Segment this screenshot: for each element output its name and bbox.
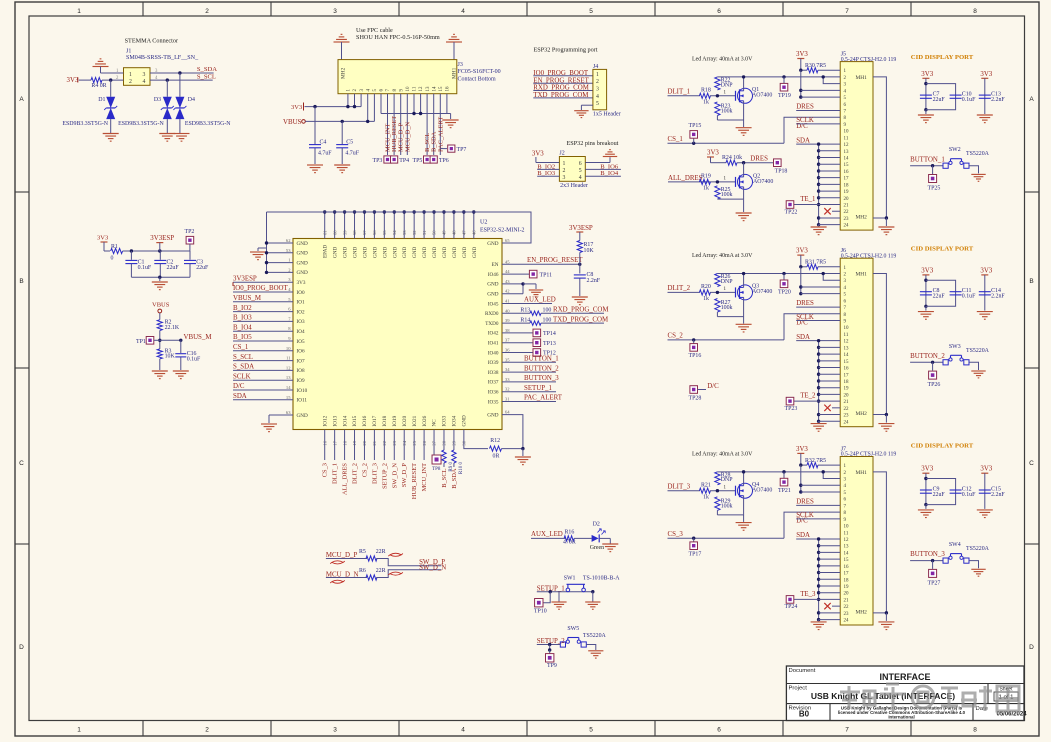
- svg-text:R10 0: R10 0: [459, 462, 464, 475]
- svg-text:22uF: 22uF: [933, 97, 946, 103]
- svg-text:IO8: IO8: [297, 368, 305, 374]
- svg-text:5: 5: [596, 101, 599, 107]
- svg-text:IO38: IO38: [488, 370, 499, 376]
- svg-text:DRES: DRES: [796, 499, 814, 506]
- svg-text:2.2nF: 2.2nF: [587, 278, 601, 284]
- svg-text:IO0_PROG_BOOT: IO0_PROG_BOOT: [233, 285, 289, 292]
- svg-text:1: 1: [563, 161, 566, 167]
- svg-text:R6: R6: [359, 568, 366, 574]
- svg-text:3V3ESP: 3V3ESP: [233, 275, 257, 282]
- svg-text:13: 13: [844, 346, 850, 351]
- svg-text:GND: GND: [362, 247, 368, 258]
- svg-text:3V3: 3V3: [980, 466, 992, 473]
- svg-text:GND: GND: [452, 247, 458, 258]
- svg-text:MH1: MH1: [856, 272, 868, 278]
- svg-text:AUX_LED: AUX_LED: [531, 531, 563, 538]
- svg-text:10: 10: [844, 130, 850, 135]
- svg-text:60: 60: [332, 230, 337, 235]
- svg-text:GND: GND: [297, 241, 308, 247]
- svg-text:Led Array: 40mA at 3.0V: Led Array: 40mA at 3.0V: [692, 451, 753, 457]
- svg-text:SETUP_1: SETUP_1: [524, 385, 553, 392]
- svg-text:TS5220A: TS5220A: [966, 151, 990, 157]
- svg-text:31: 31: [505, 397, 510, 402]
- svg-text:GND: GND: [297, 260, 308, 266]
- svg-text:Green: Green: [590, 545, 604, 551]
- svg-text:1k: 1k: [703, 99, 709, 105]
- svg-text:32: 32: [505, 387, 510, 392]
- svg-text:CS_1: CS_1: [668, 136, 684, 143]
- svg-text:7: 7: [845, 727, 849, 734]
- svg-text:3: 3: [143, 72, 146, 78]
- svg-text:A: A: [19, 96, 24, 103]
- svg-text:2: 2: [563, 168, 566, 174]
- svg-text:D: D: [19, 644, 24, 651]
- svg-text:14: 14: [432, 86, 437, 92]
- svg-text:42: 42: [505, 289, 510, 294]
- svg-text:Led Array: 40mA at 3.0V: Led Array: 40mA at 3.0V: [692, 57, 753, 63]
- svg-text:IO34: IO34: [452, 415, 458, 426]
- svg-text:MCU_D_N: MCU_D_N: [404, 121, 411, 152]
- svg-text:IO36: IO36: [488, 390, 499, 396]
- svg-text:IO0: IO0: [297, 290, 305, 296]
- svg-text:TP22: TP22: [785, 209, 798, 215]
- svg-text:CS_2: CS_2: [668, 333, 684, 340]
- svg-text:R21: R21: [701, 482, 711, 488]
- svg-text:57: 57: [362, 230, 367, 235]
- svg-text:37: 37: [505, 338, 510, 343]
- svg-text:3: 3: [563, 175, 566, 181]
- svg-text:TXD0: TXD0: [485, 321, 499, 327]
- svg-text:IO3: IO3: [297, 319, 305, 325]
- svg-text:ESD9B3.3ST5G-N: ESD9B3.3ST5G-N: [185, 121, 231, 127]
- svg-text:SW2: SW2: [949, 147, 961, 153]
- svg-text:GND: GND: [392, 247, 398, 258]
- svg-text:35: 35: [505, 357, 510, 362]
- svg-text:3V3: 3V3: [796, 248, 808, 255]
- svg-text:TP9: TP9: [547, 663, 557, 669]
- svg-text:DNP: DNP: [721, 477, 734, 483]
- svg-text:8: 8: [973, 8, 977, 15]
- svg-text:R16: R16: [565, 530, 575, 536]
- svg-text:Project: Project: [789, 686, 808, 692]
- svg-text:International: International: [888, 715, 914, 720]
- svg-text:19: 19: [844, 387, 850, 392]
- svg-text:17: 17: [844, 572, 850, 577]
- svg-text:50: 50: [432, 230, 437, 235]
- svg-text:CS_3: CS_3: [668, 531, 684, 538]
- svg-text:TP25: TP25: [928, 186, 941, 192]
- svg-text:15: 15: [844, 558, 850, 563]
- svg-text:GND: GND: [472, 247, 478, 258]
- svg-text:3V3: 3V3: [921, 71, 933, 78]
- svg-text:MH2: MH2: [856, 215, 868, 221]
- svg-text:18: 18: [844, 578, 850, 583]
- svg-text:SW4: SW4: [949, 542, 961, 548]
- svg-text:53: 53: [402, 230, 407, 235]
- svg-text:IO12: IO12: [322, 415, 328, 426]
- svg-text:TP18: TP18: [775, 168, 788, 174]
- svg-text:1: 1: [129, 72, 132, 78]
- svg-text:TS5220A: TS5220A: [583, 633, 607, 639]
- svg-text:DRES: DRES: [750, 155, 768, 162]
- svg-text:S_SCL: S_SCL: [197, 73, 216, 80]
- svg-text:AUX_LED: AUX_LED: [524, 297, 556, 304]
- svg-text:BUTTON_1: BUTTON_1: [524, 356, 559, 363]
- svg-text:22uF: 22uF: [196, 265, 209, 271]
- svg-text:63: 63: [286, 410, 291, 415]
- svg-text:VBUS_M: VBUS_M: [184, 334, 212, 341]
- svg-text:MCU_INT: MCU_INT: [421, 463, 428, 491]
- svg-text:STEMMA Connector: STEMMA Connector: [125, 38, 178, 45]
- svg-text:52: 52: [412, 230, 417, 235]
- svg-text:36: 36: [505, 348, 510, 353]
- svg-text:22: 22: [844, 407, 850, 412]
- svg-text:40: 40: [505, 308, 510, 313]
- svg-text:3V3: 3V3: [67, 77, 79, 84]
- svg-text:3: 3: [596, 87, 599, 93]
- svg-text:3V3: 3V3: [97, 235, 108, 242]
- svg-text:17: 17: [844, 373, 850, 378]
- svg-text:R18: R18: [701, 88, 711, 94]
- svg-text:22: 22: [844, 605, 850, 610]
- svg-text:B_SCL: B_SCL: [441, 468, 448, 487]
- svg-text:B_SDA: B_SDA: [451, 468, 458, 489]
- svg-text:0.1uF: 0.1uF: [962, 492, 976, 498]
- svg-text:3V3: 3V3: [291, 104, 302, 111]
- svg-text:IO4: IO4: [297, 329, 305, 335]
- svg-text:22uF: 22uF: [933, 294, 946, 300]
- svg-text:7: 7: [845, 8, 849, 15]
- svg-text:GND: GND: [487, 412, 498, 418]
- svg-text:MH1: MH1: [856, 75, 868, 81]
- svg-text:TE_1: TE_1: [800, 196, 816, 203]
- svg-text:IO14: IO14: [342, 415, 348, 426]
- svg-text:15: 15: [844, 360, 850, 365]
- svg-text:MH2: MH2: [856, 609, 868, 615]
- svg-text:SW5: SW5: [567, 626, 579, 632]
- svg-text:4: 4: [461, 727, 465, 734]
- svg-text:PAC_ALERT: PAC_ALERT: [437, 117, 444, 152]
- svg-text:IO7: IO7: [297, 358, 305, 364]
- svg-text:14: 14: [286, 385, 291, 390]
- svg-text:TP20: TP20: [778, 290, 791, 296]
- svg-text:24: 24: [844, 224, 850, 229]
- svg-text:GND: GND: [487, 282, 498, 288]
- svg-text:BUTTON_3: BUTTON_3: [910, 551, 945, 558]
- svg-text:DNP: DNP: [721, 279, 734, 285]
- svg-text:TS5220A: TS5220A: [966, 348, 990, 354]
- svg-text:3V3: 3V3: [980, 267, 992, 274]
- svg-text:AO7400: AO7400: [752, 93, 772, 99]
- svg-text:3V3: 3V3: [796, 446, 808, 453]
- svg-text:R12: R12: [490, 438, 500, 444]
- svg-text:12: 12: [844, 538, 850, 543]
- svg-text:TP2: TP2: [185, 229, 195, 235]
- svg-text:2.2nF: 2.2nF: [991, 294, 1005, 300]
- svg-text:CID DISPLAY PORT: CID DISPLAY PORT: [911, 443, 974, 450]
- svg-text:64: 64: [505, 410, 510, 415]
- svg-text:SW_D_N: SW_D_N: [391, 463, 398, 489]
- svg-text:14: 14: [844, 157, 850, 162]
- svg-text:100k: 100k: [721, 108, 733, 114]
- svg-text:DLIT_1: DLIT_1: [668, 88, 691, 95]
- svg-text:GND: GND: [487, 241, 498, 247]
- svg-text:2: 2: [129, 79, 132, 85]
- svg-text:13: 13: [844, 150, 850, 155]
- svg-text:R5: R5: [359, 549, 366, 555]
- svg-text:TP7: TP7: [457, 147, 467, 153]
- svg-text:AO7400: AO7400: [752, 487, 772, 493]
- svg-text:MH2: MH2: [856, 411, 868, 417]
- svg-text:2: 2: [596, 79, 599, 85]
- svg-text:17: 17: [844, 177, 850, 182]
- svg-text:SDA: SDA: [233, 393, 247, 400]
- svg-text:U2: U2: [480, 220, 487, 226]
- svg-text:D1: D1: [98, 97, 105, 103]
- svg-text:13: 13: [286, 375, 291, 380]
- svg-text:13: 13: [844, 545, 850, 550]
- svg-text:5: 5: [589, 8, 593, 15]
- svg-text:IO37: IO37: [488, 380, 499, 386]
- svg-text:0.1uF: 0.1uF: [138, 265, 152, 271]
- svg-text:1: 1: [723, 286, 726, 292]
- svg-text:GND: GND: [412, 247, 418, 258]
- svg-text:3: 3: [333, 727, 337, 734]
- svg-text:5: 5: [579, 168, 582, 174]
- svg-text:PAC_ALERT: PAC_ALERT: [524, 395, 563, 402]
- svg-text:AO7400: AO7400: [753, 179, 773, 185]
- svg-text:2: 2: [205, 8, 209, 15]
- svg-text:21: 21: [844, 598, 850, 603]
- svg-text:HUB_RESET: HUB_RESET: [411, 463, 418, 499]
- svg-text:10K: 10K: [584, 248, 595, 254]
- svg-text:23: 23: [844, 414, 850, 419]
- svg-text:CS_2: CS_2: [361, 463, 368, 477]
- svg-text:1: 1: [723, 90, 726, 96]
- svg-text:43: 43: [505, 279, 510, 284]
- svg-text:GND: GND: [432, 247, 438, 258]
- svg-text:3V3: 3V3: [532, 150, 544, 157]
- svg-text:DNP: DNP: [721, 82, 734, 88]
- svg-text:TS5220A: TS5220A: [966, 546, 990, 552]
- svg-text:13: 13: [426, 86, 431, 92]
- svg-text:2x3 Header: 2x3 Header: [560, 183, 588, 189]
- svg-text:J1: J1: [126, 49, 131, 55]
- svg-text:GND: GND: [343, 247, 349, 258]
- svg-text:3V3: 3V3: [980, 71, 992, 78]
- svg-text:12: 12: [844, 143, 850, 148]
- svg-text:TP28: TP28: [689, 396, 702, 402]
- svg-text:C: C: [1029, 460, 1034, 467]
- svg-text:TP16: TP16: [689, 353, 702, 359]
- svg-text:J3: J3: [458, 62, 463, 68]
- svg-text:ESP32-S2-MINI-2: ESP32-S2-MINI-2: [480, 228, 525, 234]
- svg-text:R24 10k: R24 10k: [722, 155, 742, 161]
- svg-text:100: 100: [543, 317, 552, 323]
- svg-text:47: 47: [462, 230, 467, 235]
- svg-text:D3: D3: [154, 97, 161, 103]
- svg-text:TP4: TP4: [399, 158, 409, 164]
- svg-text:3V3: 3V3: [707, 150, 719, 157]
- svg-text:IO9: IO9: [297, 378, 305, 384]
- svg-text:TP8: TP8: [432, 467, 441, 472]
- svg-text:TP27: TP27: [928, 580, 941, 586]
- svg-text:IO45: IO45: [488, 301, 499, 307]
- svg-text:R14: R14: [520, 317, 530, 323]
- svg-text:SETUP_2: SETUP_2: [381, 463, 388, 489]
- svg-text:100k: 100k: [721, 305, 733, 311]
- svg-text:12: 12: [419, 86, 424, 92]
- svg-text:61: 61: [322, 230, 327, 235]
- svg-text:GND: GND: [487, 292, 498, 298]
- svg-text:GND: GND: [297, 413, 308, 419]
- svg-text:IO39: IO39: [488, 360, 499, 366]
- svg-text:10: 10: [406, 86, 411, 92]
- svg-text:SDA: SDA: [796, 532, 810, 539]
- svg-text:100: 100: [543, 308, 552, 314]
- svg-text:TP3: TP3: [373, 158, 383, 164]
- svg-text:D/C: D/C: [233, 383, 245, 390]
- svg-text:4: 4: [461, 8, 465, 15]
- svg-text:INTERFACE: INTERFACE: [879, 672, 930, 682]
- svg-text:16: 16: [446, 86, 451, 92]
- svg-text:Led Array: 40mA at 3.0V: Led Array: 40mA at 3.0V: [692, 253, 753, 259]
- svg-text:TP14: TP14: [543, 331, 556, 337]
- svg-text:Document: Document: [789, 668, 816, 674]
- svg-text:39: 39: [505, 318, 510, 323]
- svg-text:B: B: [19, 278, 23, 285]
- svg-text:22: 22: [844, 210, 850, 215]
- svg-text:Date: Date: [976, 706, 989, 712]
- svg-text:TP23: TP23: [785, 406, 798, 412]
- svg-text:10: 10: [286, 346, 291, 351]
- svg-text:ESD9B3.3ST5G-N: ESD9B3.3ST5G-N: [118, 121, 164, 127]
- svg-text:TP15: TP15: [689, 123, 702, 129]
- svg-text:0: 0: [111, 256, 114, 262]
- svg-text:3V3ESP: 3V3ESP: [569, 225, 593, 232]
- svg-text:TE_2: TE_2: [800, 393, 816, 400]
- svg-text:IO20: IO20: [402, 415, 408, 426]
- svg-text:DLIT_2: DLIT_2: [668, 285, 691, 292]
- svg-text:21: 21: [844, 400, 850, 405]
- svg-text:A: A: [1029, 96, 1034, 103]
- svg-text:1k: 1k: [703, 296, 709, 302]
- svg-text:Contact Bottom: Contact Bottom: [458, 77, 496, 83]
- svg-text:10: 10: [844, 326, 850, 331]
- svg-text:SHOU HAN FPC-0.5-16P-50mm: SHOU HAN FPC-0.5-16P-50mm: [356, 34, 440, 41]
- svg-text:470R: 470R: [563, 540, 576, 546]
- svg-text:15: 15: [286, 395, 291, 400]
- svg-text:IO41: IO41: [488, 341, 499, 347]
- svg-text:51: 51: [422, 230, 427, 235]
- svg-text:IO18: IO18: [382, 415, 388, 426]
- svg-text:SW_D_N: SW_D_N: [419, 564, 446, 571]
- svg-text:S_SDA: S_SDA: [197, 66, 217, 73]
- svg-text:4: 4: [579, 175, 582, 181]
- svg-text:IO5: IO5: [297, 339, 305, 345]
- svg-text:48: 48: [452, 230, 457, 235]
- svg-text:TP1: TP1: [136, 339, 146, 345]
- svg-text:TP24: TP24: [785, 604, 798, 610]
- svg-text:TP26: TP26: [928, 382, 941, 388]
- svg-text:2.2nF: 2.2nF: [991, 97, 1005, 103]
- svg-text:GND: GND: [382, 247, 388, 258]
- svg-text:4: 4: [596, 94, 599, 100]
- svg-text:IO17: IO17: [372, 415, 378, 426]
- svg-text:TS-1010B-B-A: TS-1010B-B-A: [583, 576, 620, 582]
- svg-text:1k: 1k: [703, 494, 709, 500]
- svg-text:0.1uF: 0.1uF: [962, 294, 976, 300]
- svg-text:TP13: TP13: [543, 341, 556, 347]
- svg-text:S_SDA: S_SDA: [233, 364, 254, 371]
- svg-text:ESP32 pins breakout: ESP32 pins breakout: [567, 140, 619, 147]
- svg-text:33: 33: [505, 377, 510, 382]
- svg-text:R19: R19: [701, 174, 711, 180]
- svg-text:BUTTON_1: BUTTON_1: [910, 156, 945, 163]
- svg-text:TP19: TP19: [778, 93, 791, 99]
- svg-text:3V3: 3V3: [921, 267, 933, 274]
- svg-text:EN: EN: [492, 262, 499, 268]
- svg-text:62: 62: [286, 238, 291, 243]
- svg-text:IO13: IO13: [332, 415, 338, 426]
- svg-text:VBUS_M: VBUS_M: [233, 295, 261, 302]
- svg-text:16: 16: [844, 565, 850, 570]
- svg-text:RXD0: RXD0: [485, 311, 499, 317]
- svg-text:VBUS: VBUS: [152, 302, 170, 309]
- svg-text:3V3: 3V3: [796, 51, 808, 58]
- svg-text:GND: GND: [297, 251, 308, 257]
- svg-text:TP21: TP21: [778, 488, 791, 494]
- svg-text:C: C: [19, 460, 24, 467]
- svg-text:FC05-S16FCT-00: FC05-S16FCT-00: [458, 69, 501, 75]
- svg-text:TP11: TP11: [540, 273, 553, 279]
- svg-text:ESD9B3.3ST5G-N: ESD9B3.3ST5G-N: [62, 121, 108, 127]
- svg-text:SW1: SW1: [564, 576, 576, 582]
- svg-text:1k: 1k: [703, 185, 709, 191]
- svg-text:45: 45: [505, 259, 510, 264]
- svg-text:AO7400: AO7400: [752, 289, 772, 295]
- svg-text:11: 11: [844, 531, 849, 536]
- svg-text:MH1: MH1: [856, 470, 868, 476]
- svg-text:GND: GND: [402, 247, 408, 258]
- svg-text:22uF: 22uF: [167, 265, 180, 271]
- svg-text:10: 10: [844, 525, 850, 530]
- svg-text:IO19: IO19: [392, 415, 398, 426]
- svg-text:14: 14: [844, 353, 850, 358]
- svg-text:BUTTON_2: BUTTON_2: [910, 353, 945, 360]
- svg-text:22R: 22R: [376, 568, 386, 574]
- svg-text:VBUS: VBUS: [283, 119, 302, 126]
- svg-text:BUTTON_3: BUTTON_3: [524, 375, 559, 382]
- svg-text:65: 65: [505, 238, 510, 243]
- svg-text:59: 59: [342, 230, 347, 235]
- svg-text:23: 23: [844, 612, 850, 617]
- svg-text:12: 12: [844, 340, 850, 345]
- svg-text:IO15: IO15: [352, 415, 358, 426]
- svg-text:18: 18: [844, 183, 850, 188]
- svg-text:GND: GND: [372, 247, 378, 258]
- svg-text:5: 5: [589, 727, 593, 734]
- svg-text:CS_1: CS_1: [233, 344, 249, 351]
- svg-text:54: 54: [392, 230, 397, 235]
- svg-text:B_IO4: B_IO4: [233, 324, 252, 331]
- svg-text:R13: R13: [520, 308, 530, 314]
- svg-text:B_IO3: B_IO3: [233, 315, 252, 322]
- svg-text:14: 14: [844, 551, 850, 556]
- svg-text:16: 16: [844, 170, 850, 175]
- svg-text:2: 2: [205, 727, 209, 734]
- svg-text:EPAD: EPAD: [323, 245, 329, 258]
